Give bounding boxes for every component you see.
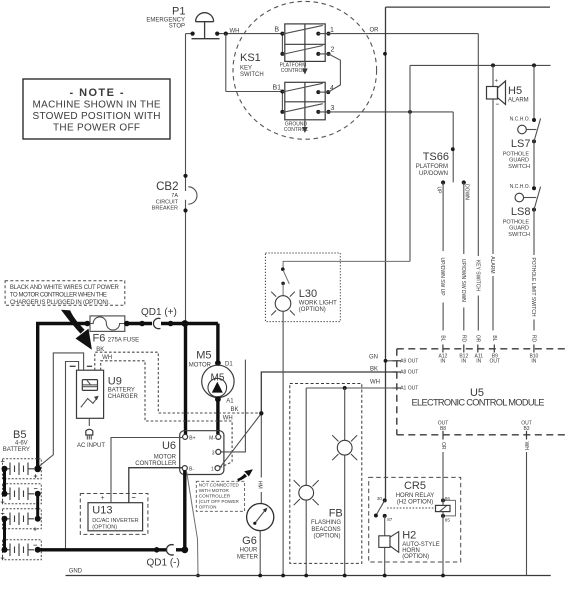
svg-text:3: 3	[212, 450, 215, 456]
svg-text:BL: BL	[439, 335, 445, 341]
svg-text:CONTROL: CONTROL	[284, 127, 309, 133]
svg-text:NOT CONNECTED: NOT CONNECTED	[199, 482, 240, 487]
svg-text:2: 2	[331, 47, 335, 54]
svg-text:B5: B5	[13, 429, 26, 441]
svg-text:B+: B+	[189, 435, 195, 441]
svg-text:LS8: LS8	[511, 206, 531, 218]
svg-text:+: +	[495, 79, 499, 85]
svg-text:B8: B8	[440, 426, 446, 432]
svg-text:G6: G6	[242, 535, 257, 547]
svg-text:CHARGER IS PLUGGED IN (OPTION): CHARGER IS PLUGGED IN (OPTION).	[10, 300, 110, 306]
svg-text:U13: U13	[92, 505, 112, 517]
svg-text:(OPTION): (OPTION)	[402, 554, 429, 560]
svg-text:CONTROL: CONTROL	[281, 68, 306, 74]
svg-text:HOUR: HOUR	[240, 548, 258, 554]
svg-text:3: 3	[331, 105, 335, 112]
svg-text:BATTERY: BATTERY	[3, 447, 30, 453]
svg-text:F6: F6	[93, 333, 106, 345]
svg-text:A9 OUT: A9 OUT	[400, 359, 418, 365]
svg-text:UP: UP	[435, 187, 441, 195]
svg-text:86: 86	[445, 496, 451, 501]
svg-text:+: +	[33, 527, 37, 534]
svg-text:IN: IN	[461, 358, 466, 364]
svg-text:4-6V: 4-6V	[15, 441, 28, 447]
svg-text:+: +	[101, 495, 105, 502]
svg-text:KS1: KS1	[240, 52, 261, 64]
svg-text:1: 1	[330, 27, 334, 34]
svg-text:A1: A1	[226, 399, 234, 405]
svg-text:GUARD: GUARD	[509, 226, 529, 232]
svg-text:−: −	[33, 543, 37, 550]
svg-text:BATTERY: BATTERY	[108, 388, 135, 394]
svg-text:ALARM: ALARM	[508, 98, 529, 104]
svg-text:LS7: LS7	[511, 138, 531, 150]
svg-text:METER: METER	[237, 555, 259, 561]
svg-text:STOP: STOP	[169, 24, 185, 30]
svg-text:FLASHING: FLASHING	[311, 520, 341, 526]
svg-text:WH: WH	[223, 415, 233, 421]
svg-text:SWITCH: SWITCH	[508, 164, 530, 170]
svg-text:MOTOR: MOTOR	[154, 455, 177, 461]
svg-text:GUARD: GUARD	[509, 158, 529, 164]
svg-text:UP/DWN SW DWN: UP/DWN SW DWN	[460, 259, 466, 302]
svg-text:FB: FB	[329, 508, 343, 520]
svg-text:CONTROLLER: CONTROLLER	[135, 461, 177, 467]
svg-text:WH: WH	[370, 380, 380, 386]
svg-text:(OPTION): (OPTION)	[314, 534, 341, 540]
svg-text:POTHOLE LIMIT SWITCH: POTHOLE LIMIT SWITCH	[530, 257, 536, 316]
svg-text:(CUT OFF POWER: (CUT OFF POWER	[199, 499, 240, 504]
svg-text:WH: WH	[230, 29, 240, 35]
svg-text:MOTOR: MOTOR	[189, 363, 212, 369]
svg-text:U6: U6	[162, 440, 176, 452]
svg-text:OR: OR	[370, 28, 380, 34]
svg-text:WH: WH	[102, 355, 112, 361]
svg-text:7A: 7A	[171, 193, 178, 199]
svg-text:HORN RELAY: HORN RELAY	[396, 493, 435, 499]
svg-text:(H2 OPTION): (H2 OPTION)	[397, 499, 433, 505]
svg-text:ALARM: ALARM	[489, 256, 495, 273]
svg-text:+: +	[1, 500, 5, 507]
svg-text:A8 OUT: A8 OUT	[400, 370, 418, 376]
svg-text:B: B	[274, 27, 279, 34]
svg-text:−: −	[1, 459, 5, 466]
svg-text:RD: RD	[530, 335, 536, 343]
svg-text:TO MOTOR CONTROLLER WHEN THE: TO MOTOR CONTROLLER WHEN THE	[10, 293, 107, 299]
svg-text:B-: B-	[189, 467, 194, 473]
svg-text:OPTION: OPTION	[199, 504, 217, 509]
svg-text:- NOTE -: - NOTE -	[70, 87, 124, 99]
svg-text:A1 OUT: A1 OUT	[400, 386, 418, 392]
svg-text:WITH MOTOR: WITH MOTOR	[199, 488, 230, 493]
svg-text:SWITCH: SWITCH	[240, 72, 264, 78]
svg-text:IN: IN	[531, 358, 536, 364]
svg-text:AC INPUT: AC INPUT	[77, 443, 105, 449]
svg-text:M5: M5	[196, 350, 211, 362]
svg-text:30: 30	[377, 496, 383, 501]
svg-text:SWITCH: SWITCH	[508, 232, 530, 238]
svg-text:BEACONS: BEACONS	[311, 527, 340, 533]
svg-text:(OPTION): (OPTION)	[92, 524, 117, 530]
svg-text:(OPTION): (OPTION)	[299, 307, 326, 313]
svg-text:THE POWER OFF: THE POWER OFF	[53, 123, 140, 134]
svg-text:+: +	[34, 474, 38, 481]
svg-text:GN: GN	[369, 354, 378, 360]
svg-text:CHARGER: CHARGER	[108, 394, 139, 400]
svg-text:TS66: TS66	[423, 151, 449, 163]
svg-text:STOWED POSITION WITH: STOWED POSITION WITH	[33, 111, 161, 122]
svg-text:H2: H2	[402, 530, 416, 542]
svg-text:−: −	[1, 511, 5, 518]
svg-text:DOWN: DOWN	[463, 184, 469, 200]
svg-text:BLACK AND WHITE WIRES CUT POWE: BLACK AND WHITE WIRES CUT POWER	[10, 285, 120, 291]
svg-text:D1: D1	[225, 362, 233, 368]
svg-text:CIRCUIT: CIRCUIT	[156, 199, 179, 205]
svg-text:WORK LIGHT: WORK LIGHT	[299, 301, 337, 307]
svg-text:IN: IN	[476, 358, 481, 364]
svg-text:WH: WH	[523, 442, 529, 451]
svg-text:BREAKER: BREAKER	[152, 206, 178, 212]
svg-text:BK: BK	[96, 347, 104, 353]
svg-text:−: −	[132, 495, 136, 502]
svg-text:CB2: CB2	[156, 181, 178, 193]
svg-text:85: 85	[445, 517, 451, 522]
svg-text:IN: IN	[440, 358, 445, 364]
svg-text:UP/DWN SW UP: UP/DWN SW UP	[439, 258, 445, 297]
svg-text:B3: B3	[523, 426, 529, 432]
svg-text:H5: H5	[508, 85, 522, 97]
svg-text:P1: P1	[172, 6, 185, 18]
svg-text:CONTROLLER: CONTROLLER	[199, 493, 231, 498]
svg-text:PLATFORM: PLATFORM	[416, 164, 448, 170]
svg-text:N.C.H.O.: N.C.H.O.	[510, 116, 530, 122]
svg-text:87: 87	[387, 517, 393, 522]
svg-text:L30: L30	[299, 288, 317, 300]
svg-text:275A FUSE: 275A FUSE	[108, 338, 139, 344]
svg-text:KEY: KEY	[240, 66, 252, 72]
svg-text:RD: RD	[460, 335, 466, 343]
svg-text:QD1 (+): QD1 (+)	[141, 307, 177, 318]
svg-text:OR: OR	[440, 442, 446, 450]
svg-text:CR5: CR5	[404, 480, 426, 492]
svg-text:MACHINE SHOWN IN THE: MACHINE SHOWN IN THE	[33, 100, 161, 111]
svg-text:+: +	[1, 556, 5, 563]
svg-text:HM: HM	[257, 481, 263, 489]
svg-text:ELECTRONIC CONTROL MODULE: ELECTRONIC CONTROL MODULE	[412, 398, 545, 408]
svg-text:U9: U9	[108, 376, 122, 388]
svg-text:UP/DOWN: UP/DOWN	[419, 171, 448, 177]
svg-text:B1: B1	[272, 85, 281, 92]
svg-text:KEY SWITCH: KEY SWITCH	[474, 260, 480, 291]
svg-text:−: −	[496, 102, 500, 108]
svg-text:OR: OR	[474, 335, 480, 343]
svg-text:QD1 (-): QD1 (-)	[147, 558, 180, 569]
svg-text:N.C.H.O.: N.C.H.O.	[510, 184, 530, 190]
svg-text:OUT: OUT	[490, 358, 501, 364]
svg-text:1: 1	[211, 467, 214, 473]
svg-text:BL: BL	[491, 335, 497, 341]
svg-text:M-: M-	[209, 435, 215, 441]
svg-text:GND: GND	[69, 569, 83, 575]
svg-text:DC/AC INVERTER: DC/AC INVERTER	[92, 518, 138, 524]
svg-text:−: −	[34, 486, 38, 493]
svg-text:BK: BK	[231, 407, 239, 413]
